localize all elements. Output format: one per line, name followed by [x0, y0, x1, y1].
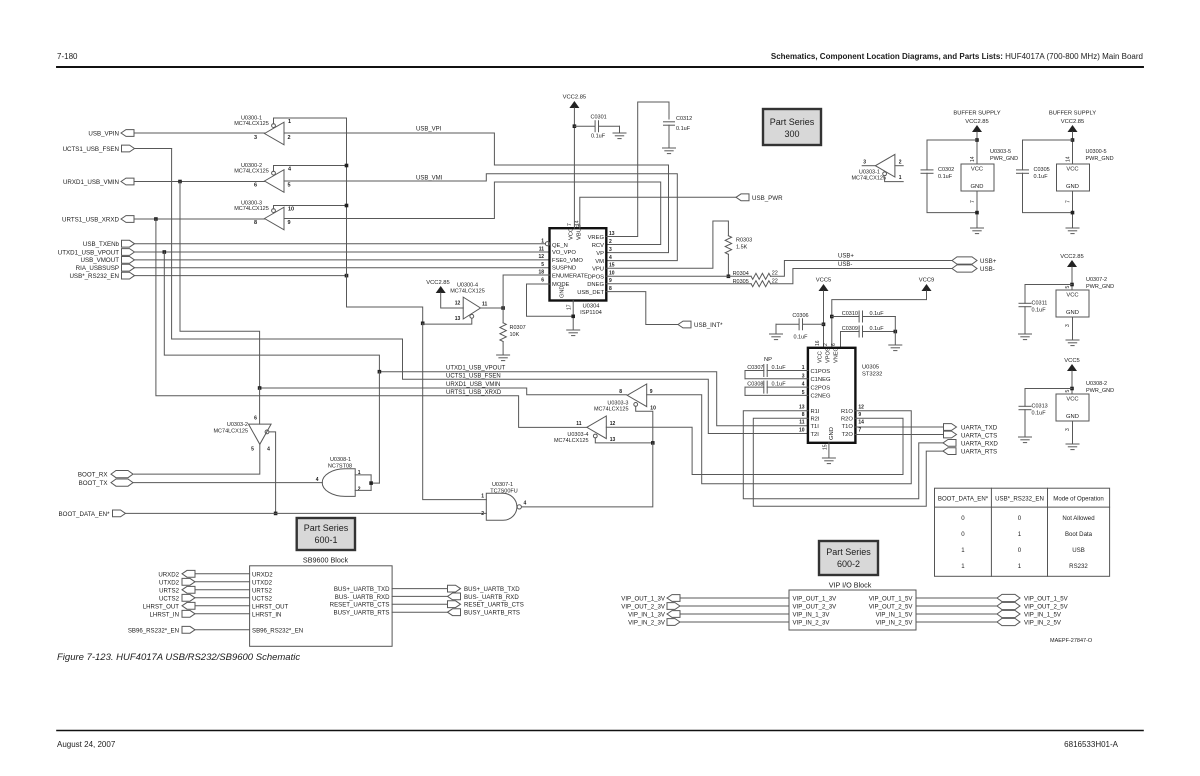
svg-text:9: 9 [609, 278, 612, 284]
svg-text:PWR_GND: PWR_GND [1086, 388, 1114, 394]
svg-text:5: 5 [541, 262, 544, 268]
capacitor C0307 0.1uF NP flying cap C1 [745, 357, 808, 379]
svg-text:3: 3 [1065, 324, 1071, 327]
svg-text:LHRST_IN: LHRST_IN [252, 611, 281, 618]
buffer supply U0300-5 PWR_GND [1017, 111, 1114, 234]
svg-text:22: 22 [772, 271, 778, 277]
svg-text:0.1uF: 0.1uF [1032, 308, 1047, 314]
frame SB9600 Block [250, 556, 393, 647]
junction U0308-1 input node [369, 481, 373, 485]
svg-text:UTXD1_USB_VPOUT: UTXD1_USB_VPOUT [446, 366, 506, 372]
svg-text:Not Allowed: Not Allowed [1062, 515, 1094, 522]
enable bus vertical wire [347, 118, 423, 323]
svg-text:VIP_OUT_2_5V: VIP_OUT_2_5V [869, 604, 914, 611]
svg-text:10K: 10K [510, 332, 520, 338]
svg-text:USB_DET: USB_DET [577, 290, 604, 296]
svg-text:1: 1 [288, 119, 291, 125]
port VIP_OUT_1_5V [869, 594, 1069, 602]
svg-text:0.1uF: 0.1uF [1034, 174, 1049, 180]
svg-text:9: 9 [858, 412, 861, 418]
svg-text:Mode of Operation: Mode of Operation [1053, 496, 1103, 503]
svg-text:11: 11 [576, 421, 582, 427]
svg-text:15: 15 [823, 444, 829, 450]
svg-text:10: 10 [609, 271, 615, 277]
wire USB_TXENb to U0304 QE_N [135, 243, 546, 245]
svg-text:C0307: C0307 [747, 365, 763, 371]
wire BOOT_TX to U0308-1 output [133, 482, 322, 484]
svg-text:GND: GND [829, 427, 835, 440]
port RESET_UARTB_CTS [330, 601, 524, 609]
junction URTS bus tap [154, 217, 158, 221]
buffer U0303-4 MC74LCX125 [554, 416, 616, 444]
svg-text:VIP_OUT_2_3V: VIP_OUT_2_3V [621, 604, 666, 611]
svg-text:USB_VPIN: USB_VPIN [88, 131, 119, 138]
svg-text:MC74LCX125: MC74LCX125 [234, 169, 269, 175]
svg-text:URTS1_USB_XRXD: URTS1_USB_XRXD [446, 390, 502, 396]
buffer supply U0303-5 PWR_GND [921, 111, 1018, 234]
svg-text:1.5K: 1.5K [736, 245, 748, 251]
svg-text:VCC: VCC [569, 228, 575, 240]
svg-text:VM: VM [595, 259, 604, 265]
port LHRST_IN [150, 610, 282, 618]
wire output to ENUMERATE [503, 275, 549, 308]
svg-text:Schematics, Component Location: Schematics, Component Location Diagrams,… [771, 52, 1143, 61]
svg-text:C0310: C0310 [842, 311, 858, 317]
svg-text:14: 14 [970, 156, 976, 162]
svg-text:QE_N: QE_N [552, 243, 568, 249]
svg-text:PWR_GND: PWR_GND [1086, 284, 1114, 290]
svg-text:10: 10 [799, 427, 805, 433]
svg-text:8: 8 [619, 389, 622, 395]
svg-text:1: 1 [481, 494, 484, 500]
svg-text:14: 14 [858, 420, 864, 426]
svg-text:URXD1_USB_VMIN: URXD1_USB_VMIN [63, 179, 119, 186]
svg-text:U0308-2: U0308-2 [1086, 381, 1107, 387]
svg-text:U0307-2: U0307-2 [1086, 277, 1107, 283]
svg-text:0.1uF: 0.1uF [1032, 411, 1047, 417]
svg-text:7: 7 [1066, 200, 1072, 203]
ground at U0304 [567, 329, 580, 331]
svg-text:0.1uF: 0.1uF [793, 335, 808, 341]
ground at C0312 [663, 147, 676, 149]
junction enable at BOOT_DATA_EN* [274, 512, 278, 516]
wire U0303-3 enable pin 10 [636, 406, 653, 443]
svg-text:FSE0_VMO: FSE0_VMO [552, 258, 583, 264]
svg-text:RCV: RCV [592, 243, 604, 249]
wire RIA_USBSUSP to U0304 SUSPND [135, 267, 550, 269]
svg-text:1: 1 [899, 175, 902, 181]
wire U0304 GND pin 17 [572, 301, 574, 331]
port VIP_OUT_1_3V [621, 595, 837, 603]
svg-text:U0300-5: U0300-5 [1086, 149, 1107, 155]
svg-text:UCTS2: UCTS2 [252, 595, 273, 602]
svg-text:3: 3 [863, 160, 866, 166]
ground at R0307 [497, 354, 510, 356]
svg-text:VCC5: VCC5 [1064, 358, 1079, 364]
svg-text:VCC: VCC [1066, 293, 1078, 299]
wire R2O to U0303-4 input [606, 418, 903, 474]
svg-text:USB_INT*: USB_INT* [694, 322, 723, 329]
junction C0309 C0310 common [894, 330, 898, 334]
svg-text:BUSY_UARTB_RTS: BUSY_UARTB_RTS [334, 610, 390, 617]
svg-text:VIP_OUT_2_5V: VIP_OUT_2_5V [1024, 604, 1069, 611]
NAND gate U0307-1 TC7S00FU [481, 482, 526, 521]
svg-text:UARTA_TXD: UARTA_TXD [961, 425, 998, 432]
port URTS1_USB_XRXD [62, 216, 134, 224]
junction URXD bus tap [178, 180, 182, 184]
svg-text:U0303-2: U0303-2 [227, 422, 248, 428]
svg-text:BUS+_UARTB_TXD: BUS+_UARTB_TXD [334, 586, 390, 593]
svg-text:RESET_UARTB_CTS: RESET_UARTB_CTS [464, 602, 524, 609]
svg-text:ISP1104: ISP1104 [580, 310, 603, 316]
bus wire UCTS down [172, 149, 808, 434]
svg-text:5: 5 [288, 183, 291, 189]
junction URXD at U0303-2 input [258, 386, 262, 390]
svg-text:BUFFER SUPPLY: BUFFER SUPPLY [953, 111, 1000, 117]
svg-text:RS232: RS232 [1069, 563, 1088, 570]
svg-text:PWR_GND: PWR_GND [1086, 156, 1114, 162]
svg-text:Part Series: Part Series [770, 117, 815, 127]
svg-text:BOOT_RX: BOOT_RX [78, 472, 108, 479]
svg-text:12: 12 [858, 405, 864, 411]
svg-text:600-2: 600-2 [837, 559, 860, 569]
svg-text:August 24, 2007: August 24, 2007 [57, 740, 116, 749]
wire U0307-1 output to enables [522, 443, 653, 507]
port VIP_OUT_2_5V [869, 602, 1069, 610]
power VCC9 wire to U0305 VPOS [832, 278, 934, 348]
svg-text:LHRST_OUT: LHRST_OUT [143, 603, 180, 610]
svg-text:T1O: T1O [842, 424, 854, 430]
svg-text:3: 3 [1065, 428, 1071, 431]
svg-text:BOOT_TX: BOOT_TX [79, 480, 108, 487]
ground at C0306 [770, 324, 783, 339]
junction C0310 tap [830, 315, 834, 319]
svg-text:12: 12 [455, 300, 461, 306]
wire output to R0307 [502, 308, 504, 323]
svg-text:NP: NP [764, 357, 772, 363]
wire USB_VMOUT to U0304 FSE0_VMO [135, 259, 550, 261]
svg-text:BUFFER SUPPLY: BUFFER SUPPLY [1049, 111, 1096, 117]
svg-text:2: 2 [609, 239, 612, 245]
page header [57, 52, 1143, 67]
svg-text:URTS2: URTS2 [252, 587, 272, 594]
wire U0304 VBUS to USB_PWR [580, 197, 736, 228]
power VCC2.85 above U0304 [563, 95, 587, 229]
wire U0308-1 to UTXD bus [378, 372, 380, 483]
svg-text:11: 11 [799, 420, 805, 426]
svg-text:USB*_RS232_EN: USB*_RS232_EN [69, 273, 119, 280]
svg-text:0.1uF: 0.1uF [870, 326, 885, 332]
svg-text:USB: USB [1072, 547, 1085, 554]
svg-text:0.1uF: 0.1uF [870, 311, 885, 317]
port BUS+_UARTB_TXD [334, 585, 520, 593]
svg-text:2: 2 [823, 343, 829, 346]
svg-text:C0305: C0305 [1034, 167, 1050, 173]
power supply U0308-2 PWR_GND [1019, 358, 1115, 450]
svg-text:VCC9: VCC9 [919, 278, 934, 284]
svg-text:MAEPF-27847-O: MAEPF-27847-O [1050, 638, 1093, 644]
wire T1O to UARTA_TXD [855, 426, 943, 428]
wire U0303-2 enable pin 4 [269, 432, 276, 514]
svg-text:C2POS: C2POS [811, 385, 831, 391]
svg-text:6816533H01-A: 6816533H01-A [1064, 740, 1118, 749]
svg-text:GND: GND [560, 286, 566, 298]
IC U0305 ST3232 [799, 340, 882, 450]
buffer U0300-3 MC74LCX125 [234, 201, 346, 230]
svg-text:3: 3 [609, 247, 612, 253]
wire U0305 GND pin 15 [828, 443, 830, 458]
svg-text:URXD2: URXD2 [252, 571, 273, 578]
svg-text:VCC: VCC [1066, 167, 1078, 173]
svg-text:T1I: T1I [811, 424, 820, 430]
svg-text:VNEG: VNEG [834, 347, 840, 363]
svg-text:URTS1_USB_XRXD: URTS1_USB_XRXD [62, 217, 119, 224]
svg-text:C0301: C0301 [591, 115, 607, 121]
frame VIP I/O Block [789, 581, 916, 631]
svg-text:USB_VMOUT: USB_VMOUT [80, 257, 119, 264]
svg-text:VREG: VREG [588, 235, 605, 241]
IC U0304 ISP1104 [538, 220, 614, 316]
svg-text:5: 5 [1065, 390, 1071, 393]
svg-text:Part Series: Part Series [826, 547, 871, 557]
svg-text:8: 8 [254, 220, 257, 226]
table mode of operation [935, 488, 1110, 576]
svg-text:C0309: C0309 [842, 326, 858, 332]
svg-text:17: 17 [567, 304, 573, 310]
svg-text:LHRST_IN: LHRST_IN [150, 611, 179, 618]
svg-text:R1O: R1O [841, 409, 853, 415]
svg-text:BUS-_UARTB_RXD: BUS-_UARTB_RXD [464, 594, 519, 601]
svg-text:T2O: T2O [842, 432, 854, 438]
buffer U0303-1 MC74LCX125 [851, 154, 903, 181]
svg-text:R0304: R0304 [733, 271, 749, 277]
svg-text:9: 9 [288, 220, 291, 226]
port BUS-_UARTB_RXD [335, 593, 520, 601]
capacitor C0309 0.1uF [841, 326, 896, 348]
port BOOT_DATA_EN* [59, 510, 126, 518]
svg-text:7: 7 [567, 223, 573, 226]
svg-text:VIP_IN_2_5V: VIP_IN_2_5V [1024, 620, 1062, 627]
svg-text:C1NEG: C1NEG [811, 377, 831, 383]
svg-text:0.1uF: 0.1uF [591, 134, 606, 140]
svg-text:SUSPND: SUSPND [552, 266, 576, 272]
svg-text:0.1uF: 0.1uF [938, 174, 953, 180]
resistor R0303 1.5K [725, 236, 752, 277]
port BOOT_RX [78, 471, 133, 479]
ground at C0301 [613, 126, 626, 138]
capacitor C0301 0.1uF [574, 115, 619, 140]
svg-text:VCC2.85: VCC2.85 [1060, 254, 1084, 260]
svg-text:R2I: R2I [811, 417, 820, 423]
junction U0300-4 output node [501, 306, 505, 310]
svg-text:UARTA_RXD: UARTA_RXD [961, 440, 998, 447]
junction U0303 enables with U0307-1 output [651, 441, 655, 445]
svg-text:Part Series: Part Series [304, 523, 349, 533]
svg-text:13: 13 [799, 405, 805, 411]
svg-text:VPOS: VPOS [826, 347, 832, 363]
buffer U0300-1 MC74LCX125 [234, 116, 346, 145]
wire U0303-4 enable pin 13 [595, 438, 653, 443]
wire BOOT_DATA_EN* to U0307-1 pin 2 [126, 512, 487, 514]
svg-text:ST3232: ST3232 [862, 372, 882, 378]
port UARTA_TXD [944, 424, 998, 432]
capacitor C0308 0.1uF flying cap C2 [745, 381, 808, 395]
resistor R0304 22 [733, 271, 778, 280]
svg-text:RIA_USBSUSP: RIA_USBSUSP [76, 265, 119, 272]
svg-text:UCTS1_USB_FSEN: UCTS1_USB_FSEN [63, 146, 119, 153]
svg-text:VIP_IN_2_3V: VIP_IN_2_3V [628, 620, 666, 627]
port UTXD1_USB_VPOUT [58, 249, 135, 257]
wire U0304 USB_DET to USB_INT* [606, 292, 678, 325]
AND gate U0308-1 NC7ST08 [316, 457, 361, 496]
port URTS2 [159, 586, 272, 594]
wire U0300-4 enable pin 13 [423, 319, 472, 324]
wire U0300-3 input to U0304 RCV [284, 182, 661, 245]
frame Part Series 300 [763, 109, 821, 145]
wire U0304 VPU to R0303 [606, 221, 728, 268]
junction UTXD bus tap [163, 250, 167, 254]
junction enable bus at U0300-2 pin 4 [345, 164, 349, 168]
svg-text:4: 4 [524, 501, 527, 507]
svg-text:Figure 7-123. HUF4017A USB/RS2: Figure 7-123. HUF4017A USB/RS232/SB9600 … [57, 652, 300, 663]
svg-text:R0305: R0305 [733, 279, 749, 285]
svg-text:6: 6 [541, 278, 544, 284]
net USB_VMI wire U0300-2 input to U0304 VM [284, 174, 677, 261]
port URXD1_USB_VMIN [63, 178, 134, 186]
frame Part Series 600-2 [819, 541, 878, 575]
junction R0303 at DPOS [727, 275, 731, 279]
svg-text:RESET_UARTB_CTS: RESET_UARTB_CTS [330, 602, 390, 609]
svg-text:SB96_RS232*_EN: SB96_RS232*_EN [128, 627, 179, 634]
port UARTA_RTS [943, 448, 997, 456]
wire UCTS1_USB_FSEN flag to bus [135, 148, 172, 150]
svg-text:PWR_GND: PWR_GND [990, 156, 1018, 162]
svg-text:VIP_IN_2_3V: VIP_IN_2_3V [793, 620, 831, 627]
junction U0300-4 pin 13 tap [421, 322, 425, 326]
svg-text:DNEG: DNEG [587, 282, 604, 288]
svg-text:10: 10 [288, 207, 294, 213]
svg-text:VPU: VPU [592, 267, 604, 273]
port BUSY_UARTB_RTS [334, 609, 521, 617]
svg-text:4: 4 [609, 255, 612, 261]
wire U0300-4 output [481, 307, 504, 309]
svg-text:2: 2 [288, 135, 291, 141]
svg-text:12: 12 [538, 254, 544, 260]
svg-text:VCC2.85: VCC2.85 [1061, 119, 1085, 125]
svg-text:VIP_IN_2_5V: VIP_IN_2_5V [876, 620, 914, 627]
svg-text:300: 300 [784, 129, 799, 139]
svg-text:3: 3 [254, 135, 257, 141]
svg-text:VIP_IN_1_5V: VIP_IN_1_5V [876, 612, 914, 619]
svg-text:C0308: C0308 [747, 382, 763, 388]
svg-text:VIP_IN_1_3V: VIP_IN_1_3V [793, 612, 831, 619]
svg-text:9: 9 [650, 389, 653, 395]
bus wire UTXD down [164, 252, 808, 426]
svg-text:VCC: VCC [971, 167, 983, 173]
svg-text:C1POS: C1POS [811, 369, 831, 375]
net USB- wire [771, 262, 953, 284]
svg-text:VO_VPO: VO_VPO [552, 250, 576, 256]
svg-text:C2NEG: C2NEG [811, 394, 831, 400]
net USB+ wire [771, 254, 953, 277]
svg-text:C0313: C0313 [1032, 404, 1048, 410]
port UCTS2 [159, 594, 273, 602]
svg-text:LHRST_OUT: LHRST_OUT [252, 603, 289, 610]
port USB_INT* [678, 321, 723, 329]
port USB_TXENb [83, 240, 135, 248]
port VIP_OUT_2_3V [621, 603, 837, 611]
svg-text:13: 13 [455, 316, 461, 322]
svg-text:VCC2.85: VCC2.85 [965, 119, 989, 125]
svg-text:MC74LCX125: MC74LCX125 [450, 289, 485, 295]
svg-text:11: 11 [539, 246, 545, 252]
svg-text:C0306: C0306 [792, 313, 808, 319]
svg-text:UTXD2: UTXD2 [252, 579, 273, 586]
svg-text:U0300-4: U0300-4 [457, 283, 478, 289]
svg-text:12: 12 [610, 421, 616, 427]
svg-text:URXD1_USB_VMIN: URXD1_USB_VMIN [446, 382, 500, 388]
port BOOT_TX [79, 479, 133, 487]
svg-text:GND: GND [1066, 310, 1079, 316]
svg-text:600-1: 600-1 [314, 535, 337, 545]
svg-text:7-180: 7-180 [57, 52, 78, 61]
svg-text:MC74LCX125: MC74LCX125 [213, 428, 248, 434]
svg-text:DPOS: DPOS [588, 274, 605, 280]
port USB_PWR [736, 194, 783, 202]
svg-text:SB96_RS232*_EN: SB96_RS232*_EN [252, 627, 303, 634]
buffer U0300-2 MC74LCX125 [234, 163, 346, 192]
wire URXD1_USB_VMIN to U0300-2 output [134, 181, 265, 183]
svg-text:0.1uF: 0.1uF [772, 382, 787, 388]
junction C0301 tap [573, 124, 577, 128]
port UARTA_CTS [944, 431, 998, 439]
svg-text:VIP_OUT_1_5V: VIP_OUT_1_5V [869, 596, 914, 603]
svg-text:VIP_OUT_1_3V: VIP_OUT_1_3V [621, 596, 666, 603]
svg-text:VCC5: VCC5 [816, 278, 831, 284]
svg-text:BUS+_UARTB_TXD: BUS+_UARTB_TXD [464, 586, 520, 593]
resistor R0307 10K [500, 323, 526, 355]
svg-text:MC74LCX125: MC74LCX125 [554, 438, 589, 444]
svg-text:GND: GND [1066, 414, 1079, 420]
port UCTS1_USB_FSEN [63, 145, 135, 153]
svg-text:6: 6 [831, 343, 837, 346]
svg-text:8: 8 [802, 412, 805, 418]
svg-text:VIP I/O Block: VIP I/O Block [829, 581, 872, 590]
svg-text:VCC: VCC [818, 351, 824, 363]
svg-text:U0304: U0304 [582, 304, 600, 310]
port USB_VMOUT [80, 257, 134, 265]
svg-text:U0305: U0305 [862, 365, 879, 371]
buffer U0303-2 MC74LCX125 down [213, 416, 271, 453]
svg-text:USB_VMI: USB_VMI [416, 176, 443, 182]
svg-text:R2O: R2O [841, 417, 853, 423]
port VIP_IN_1_5V [876, 610, 1062, 618]
svg-text:R0307: R0307 [510, 325, 526, 331]
svg-text:2: 2 [358, 487, 361, 493]
svg-text:BUSY_UARTB_RTS: BUSY_UARTB_RTS [464, 610, 520, 617]
svg-text:C0302: C0302 [938, 167, 954, 173]
svg-text:VP: VP [596, 251, 604, 257]
svg-text:USB_TXENb: USB_TXENb [83, 241, 120, 248]
wire U0304 VREG to C0312 [606, 102, 669, 237]
svg-text:VCC2.85: VCC2.85 [563, 95, 587, 101]
svg-text:GND: GND [971, 184, 984, 190]
svg-text:MC74LCX125: MC74LCX125 [594, 407, 629, 413]
svg-text:USB*_RS232_EN: USB*_RS232_EN [995, 496, 1044, 503]
svg-text:7: 7 [858, 427, 861, 433]
port RIA_USBSUSP [76, 264, 135, 272]
svg-text:14: 14 [1066, 156, 1072, 162]
